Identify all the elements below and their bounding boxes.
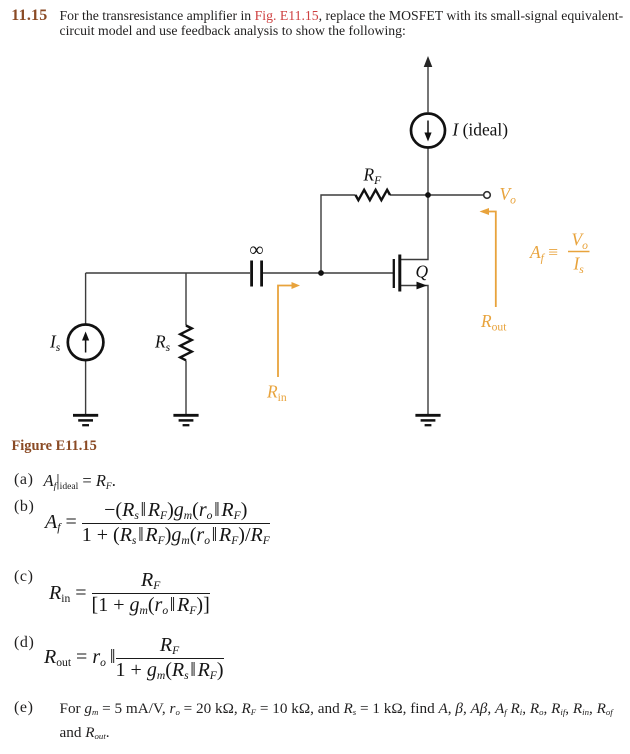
MOSFET source arrowhead [417,282,428,290]
MOSFET Q channel bar [398,255,401,292]
node: gate junction [318,270,324,276]
wire top lead above current source I [427,64,429,112]
svg-text:Vo: Vo [500,184,517,207]
wire RF left lead and down to gate node [321,195,356,273]
svg-text:Rout: Rout [480,311,507,334]
item (e) [14,699,34,717]
svg-text:Is: Is [573,254,585,277]
svg-text:Q: Q [416,262,429,282]
capacitor plates [250,261,253,287]
svg-text:∞: ∞ [249,239,263,261]
wire current source I to output node [427,149,429,196]
wire capacitor right plate to gate node [263,272,321,274]
wire Is top lead [85,273,87,325]
ground under MOSFET source [415,415,440,425]
current source Is arrow (up) [85,338,87,353]
item (b) [14,498,34,516]
ground under Rs [173,415,198,425]
circuit schematic [0,0,630,460]
annotation Rout arrow [487,212,496,308]
wire Rs top lead [185,273,187,326]
svg-text:Rs: Rs [154,332,171,355]
resistor RF [356,190,391,200]
item (c) [14,568,34,586]
problem number 11.15 [11,7,47,25]
svg-text:Is: Is [49,332,61,355]
wire MOSFET source down to ground [400,286,428,415]
wire RF right lead [390,194,428,196]
wire capacitor left plate to Is branch [86,272,250,274]
problem statement [60,8,630,39]
svg-text:Vo: Vo [572,229,589,252]
wire gate node to MOSFET gate [321,272,393,274]
MOSFET Q gate bar [393,259,395,288]
wire output node to Vo terminal [428,194,484,196]
figure caption [12,438,97,455]
svg-text:Rin: Rin [266,382,287,405]
ground under Is [73,415,98,425]
node: drain/RF/Vo junction [425,192,431,198]
Vo open terminal [484,192,491,199]
current source I (ideal) circle [411,114,445,148]
current source I arrow (down) [427,121,429,136]
svg-text:Af ≡: Af ≡ [529,242,558,265]
item (d) [14,634,34,652]
arrowhead on top supply lead [424,56,433,67]
svg-text:RF: RF [363,165,383,188]
item (a) [14,471,34,489]
current source Is circle [68,325,104,361]
resistor Rs [180,326,192,361]
wire Rs bottom lead to ground [185,360,187,414]
svg-text:I (ideal): I (ideal) [452,119,509,139]
annotation Rin arrow [278,286,294,378]
wire MOSFET drain to output node [400,195,428,260]
wire Is bottom lead to ground [85,360,87,414]
